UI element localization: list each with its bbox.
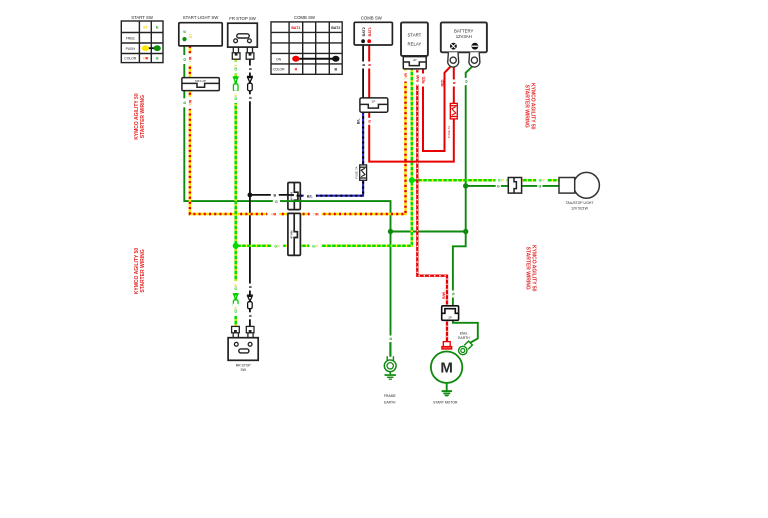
wire G battery to engine earth (dark green) xyxy=(453,65,478,343)
wire G tail light branch xyxy=(466,185,559,187)
box FR STOP SW xyxy=(228,23,258,47)
fuse FUSE7A on battery R xyxy=(450,103,457,119)
start sw contact line xyxy=(145,47,157,49)
svg-text:B: B xyxy=(248,314,252,317)
bullet connector G/Y upper xyxy=(233,77,239,91)
svg-text:COMB SW: COMB SW xyxy=(361,16,383,21)
connector 4P MINI vertical 2 xyxy=(288,213,301,255)
fr stop sw terminal right xyxy=(246,47,254,59)
svg-text:ST: ST xyxy=(143,25,148,29)
box START LIGHT SW xyxy=(179,23,222,46)
svg-text:ON: ON xyxy=(276,57,282,61)
svg-text:4P MINI: 4P MINI xyxy=(292,192,294,201)
svg-text:BAT2: BAT2 xyxy=(362,27,366,36)
tail/stop bulb xyxy=(574,172,600,198)
svg-text:G/Y: G/Y xyxy=(539,179,546,183)
fuse FUSE7A on B/L xyxy=(360,165,367,180)
svg-text:2P: 2P xyxy=(372,100,376,104)
start light sw terminal dot xyxy=(182,37,186,41)
rr stop sw circles xyxy=(234,342,238,346)
svg-text:FR STOP SW: FR STOP SW xyxy=(229,16,257,21)
wire B fr-stop-sw to rr-stop-sw (black) xyxy=(250,59,288,326)
svg-text:FUSE 7A: FUSE 7A xyxy=(447,126,451,139)
svg-text:G/Y: G/Y xyxy=(498,179,505,183)
label backgrounds xyxy=(182,54,548,343)
svg-text:Y/R: Y/R xyxy=(142,57,148,61)
box RR STOP SW xyxy=(228,338,258,361)
svg-text:G/Y: G/Y xyxy=(312,245,319,249)
svg-text:R: R xyxy=(368,63,372,66)
rr stop sw terminal left xyxy=(232,326,240,337)
battery screw plus xyxy=(450,43,457,50)
starter motor terminal xyxy=(442,342,452,349)
svg-text:RELAY: RELAY xyxy=(408,41,422,46)
svg-text:R/W: R/W xyxy=(416,74,420,82)
svg-text:ENG.: ENG. xyxy=(460,332,468,336)
svg-text:EARTH: EARTH xyxy=(458,336,470,340)
bullet connector G/Y lower xyxy=(233,294,239,307)
battery ring terminal right xyxy=(469,52,480,67)
svg-text:B: B xyxy=(362,63,366,66)
svg-text:M: M xyxy=(440,360,453,377)
fr stop sw pill xyxy=(237,34,249,38)
fr stop sw terminal left xyxy=(232,47,240,59)
side text kymco left top xyxy=(134,83,537,294)
comb sw2 terminal BAT2 dot xyxy=(361,39,365,43)
svg-text:COMB SW: COMB SW xyxy=(294,15,316,20)
svg-text:Y/R: Y/R xyxy=(189,56,193,62)
svg-text:BATTERY: BATTERY xyxy=(454,28,474,33)
battery ring terminal left xyxy=(448,52,459,67)
svg-text:G: G xyxy=(275,200,278,204)
wire B comb-sw2 upper (black) xyxy=(362,41,364,98)
svg-text:G: G xyxy=(389,337,393,340)
box COMB SW 2 xyxy=(354,22,392,45)
junction node G mid xyxy=(463,229,468,234)
svg-text:COLOR: COLOR xyxy=(273,68,286,72)
svg-text:B/L: B/L xyxy=(307,194,314,198)
junction node G frame xyxy=(388,229,393,234)
starter motor ground xyxy=(442,383,452,397)
svg-text:12V 5/21W: 12V 5/21W xyxy=(571,206,589,210)
svg-text:G/Y: G/Y xyxy=(234,306,238,313)
svg-text:R/W: R/W xyxy=(442,291,446,299)
svg-text:START SW: START SW xyxy=(131,15,154,20)
svg-text:R(2): R(2) xyxy=(422,76,426,84)
svg-text:STARTER WIRING: STARTER WIRING xyxy=(140,95,146,138)
wire G frame earth lower segment xyxy=(389,342,391,357)
wire Y/R start-light-sw to relay (yellow/red stripe) xyxy=(190,46,406,214)
table START SW xyxy=(121,21,163,63)
svg-text:G: G xyxy=(497,185,500,189)
svg-text:STARTER WIRING: STARTER WIRING xyxy=(140,249,146,292)
svg-text:SW: SW xyxy=(240,368,246,372)
wire R comb-sw2 to fuse to battery (red) xyxy=(369,41,454,161)
svg-text:G/Y: G/Y xyxy=(234,93,238,100)
frame earth ring terminal xyxy=(384,356,396,371)
box START RELAY xyxy=(401,22,428,56)
svg-text:PUSH: PUSH xyxy=(126,47,136,51)
svg-text:START LIGHT SW: START LIGHT SW xyxy=(183,15,219,20)
svg-text:G: G xyxy=(464,80,468,83)
svg-text:B: B xyxy=(248,285,252,288)
rr stop sw pill xyxy=(239,349,249,353)
svg-text:B: B xyxy=(248,67,252,70)
svg-text:START: START xyxy=(408,32,422,37)
svg-text:4P MINI: 4P MINI xyxy=(292,230,294,239)
bullet connector B lower xyxy=(247,295,253,309)
svg-text:FRAME: FRAME xyxy=(384,394,397,398)
svg-text:2P: 2P xyxy=(448,316,452,320)
svg-text:BAT1: BAT1 xyxy=(368,27,372,36)
wire G/Y bus to relay and tail light xyxy=(236,69,559,246)
svg-text:STARTER WIRING: STARTER WIRING xyxy=(524,85,530,128)
svg-text:G: G xyxy=(183,101,187,104)
rr stop sw terminal right xyxy=(246,326,254,337)
wire B/L comb-sw2 to connector-1 (blue/black stripe) xyxy=(300,112,363,196)
svg-text:G: G xyxy=(183,58,187,61)
svg-text:R: R xyxy=(295,68,298,72)
comb sw contact line xyxy=(296,58,336,60)
connector MINI 2P xyxy=(182,78,219,91)
svg-text:4P: 4P xyxy=(413,58,417,62)
connector 2P comb-sw2 xyxy=(360,98,388,112)
connector 4P MINI vertical 1 xyxy=(288,183,300,210)
svg-text:FREE: FREE xyxy=(126,36,136,40)
svg-text:B: B xyxy=(248,96,252,99)
box BATTERY xyxy=(441,22,487,52)
svg-text:BAT2: BAT2 xyxy=(331,26,340,30)
svg-text:G/Y: G/Y xyxy=(234,283,238,290)
connector-1 G wire pass-through xyxy=(287,200,301,202)
svg-text:R: R xyxy=(368,120,372,123)
svg-text:BAT1: BAT1 xyxy=(291,26,300,30)
svg-text:ST: ST xyxy=(189,33,193,38)
bullet connector B upper xyxy=(247,76,253,90)
connector-1 pins xyxy=(288,194,300,197)
junction node B xyxy=(248,193,253,198)
svg-text:COLOR: COLOR xyxy=(124,57,137,61)
tail light connector xyxy=(508,178,521,194)
svg-text:Y/R: Y/R xyxy=(270,213,276,217)
svg-text:G: G xyxy=(156,57,159,61)
junction node G/Y lower xyxy=(233,243,239,249)
wire R/W relay to starter motor (red/white stripe) xyxy=(417,69,447,342)
svg-text:Y/R: Y/R xyxy=(313,213,319,217)
starter motor M circle xyxy=(431,352,462,383)
svg-text:TAIL/STOP LIGHT: TAIL/STOP LIGHT xyxy=(566,201,594,205)
comb sw2 terminal BAT1 dot xyxy=(367,39,371,43)
relay connector 4P xyxy=(403,57,426,69)
svg-text:B: B xyxy=(334,68,337,72)
svg-text:EARTH: EARTH xyxy=(384,401,396,405)
svg-text:G: G xyxy=(539,185,542,189)
junction node G tail xyxy=(463,183,468,188)
svg-text:Y/R: Y/R xyxy=(404,73,408,79)
svg-text:B/L: B/L xyxy=(356,118,360,125)
svg-text:12V3AH: 12V3AH xyxy=(456,34,472,39)
svg-text:G: G xyxy=(451,292,455,295)
wire R(2) relay to battery (red) xyxy=(423,65,452,151)
svg-text:G/Y: G/Y xyxy=(274,245,281,249)
svg-text:Y/R: Y/R xyxy=(189,99,193,105)
svg-text:STARTER WIRING: STARTER WIRING xyxy=(525,247,531,290)
wire G/Y fr-stop-sw vertical to rr-stop-sw (green/yellow stripe) xyxy=(234,59,237,326)
svg-text:START MOTOR: START MOTOR xyxy=(433,400,458,404)
svg-text:MINI 2P: MINI 2P xyxy=(195,79,206,83)
svg-text:G/Y: G/Y xyxy=(234,64,238,71)
eng earth ring terminal xyxy=(459,341,473,355)
junction node G/Y tail xyxy=(409,177,415,183)
svg-text:RR STOP: RR STOP xyxy=(236,363,252,367)
svg-text:FUSE 7A: FUSE 7A xyxy=(354,166,358,179)
svg-text:B: B xyxy=(273,194,276,198)
svg-text:R: R xyxy=(452,81,456,84)
connector 2P motor xyxy=(442,306,459,321)
frame earth ground xyxy=(385,372,396,380)
table COMB SW xyxy=(271,22,342,74)
wire G start-light-sw to frame-earth bus (dark green) xyxy=(184,46,465,356)
svg-text:R(2): R(2) xyxy=(440,79,444,87)
battery screw minus xyxy=(472,43,479,50)
fr stop sw circles xyxy=(234,39,238,43)
